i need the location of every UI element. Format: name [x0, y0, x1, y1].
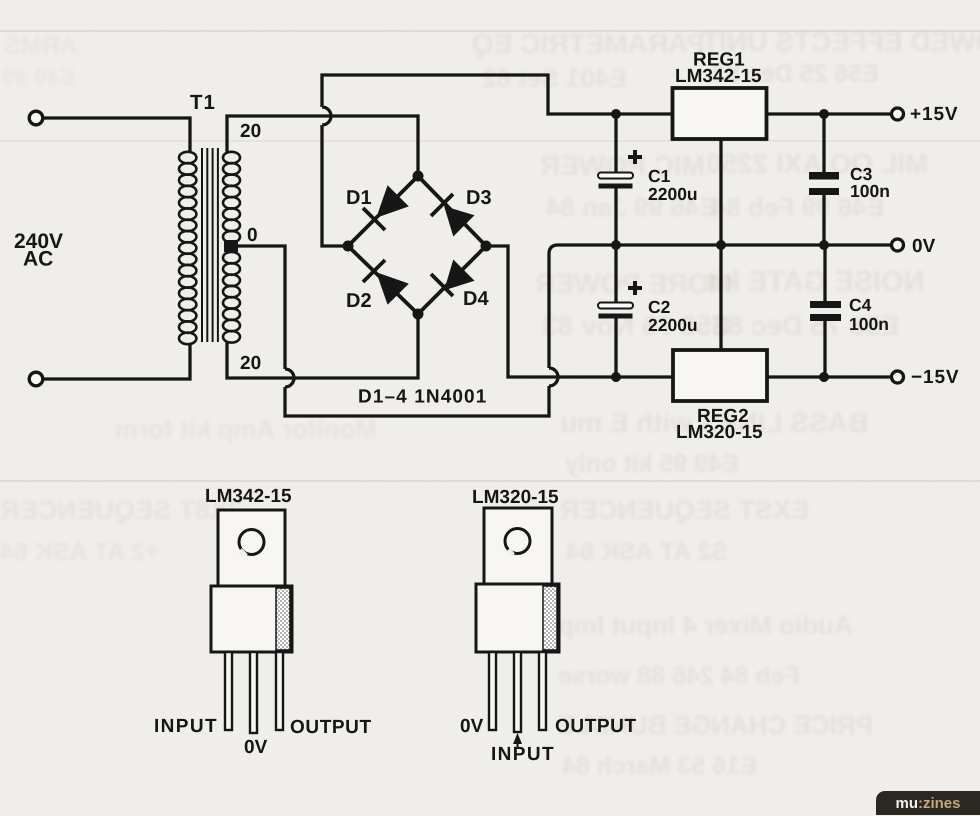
svg-text:C4: C4 [849, 295, 872, 315]
svg-text:20: 20 [240, 353, 261, 374]
svg-text:T1: T1 [190, 91, 216, 114]
svg-text:LM320-15: LM320-15 [472, 487, 559, 508]
svg-text:C1: C1 [648, 166, 671, 186]
svg-text:20: 20 [240, 121, 261, 142]
svg-text:−15V: −15V [911, 367, 960, 388]
svg-text:INPUT: INPUT [491, 744, 555, 765]
svg-text:+15V: +15V [910, 104, 959, 125]
svg-text:100n: 100n [850, 181, 890, 201]
svg-text:0V: 0V [244, 737, 268, 758]
svg-text:D3: D3 [466, 187, 492, 209]
svg-text:INPUT: INPUT [154, 716, 218, 737]
svg-text:OUTPUT: OUTPUT [555, 716, 637, 737]
svg-text:LM342-15: LM342-15 [205, 486, 292, 507]
svg-text:2200u: 2200u [648, 184, 698, 204]
svg-text:LM320-15: LM320-15 [676, 422, 763, 443]
svg-text:0V: 0V [912, 236, 936, 257]
svg-text:C2: C2 [648, 297, 671, 317]
svg-text:D1: D1 [346, 187, 372, 209]
svg-text:D2: D2 [346, 290, 372, 312]
svg-text:D4: D4 [463, 288, 489, 310]
svg-text:AC: AC [23, 248, 53, 271]
svg-text:0: 0 [247, 225, 258, 246]
svg-text:D1–4 1N4001: D1–4 1N4001 [358, 387, 487, 408]
svg-text:2200u: 2200u [648, 315, 698, 335]
svg-text:100n: 100n [849, 314, 889, 334]
svg-text:LM342-15: LM342-15 [675, 66, 762, 87]
svg-text:OUTPUT: OUTPUT [290, 717, 372, 738]
svg-text:0V: 0V [460, 716, 484, 737]
